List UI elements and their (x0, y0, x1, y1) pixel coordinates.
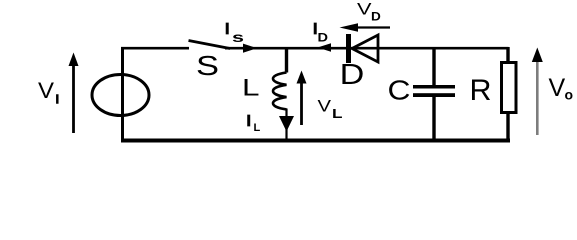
diode D triangle (352, 35, 378, 62)
wire: top right segment (225, 47, 509, 50)
svg-text:V: V (549, 74, 566, 102)
diode D cathode bar (346, 34, 351, 63)
arrow VL (300, 80, 303, 125)
arrow ID (318, 43, 332, 52)
svg-text:R: R (470, 74, 492, 107)
source VI (92, 75, 149, 116)
svg-text:D: D (318, 31, 329, 45)
arrow Vo (536, 60, 539, 135)
svg-text:L: L (242, 75, 260, 102)
svg-text:S: S (196, 50, 219, 81)
svg-text:L: L (254, 122, 261, 134)
svg-text:V: V (318, 97, 332, 116)
svg-text:o: o (565, 87, 574, 103)
inductor L (273, 73, 287, 110)
svg-text:D: D (371, 10, 381, 24)
wire: switch-node to inductor (junction) (285, 48, 288, 73)
arrow VD (352, 26, 390, 28)
capacitor C bottom plate (413, 93, 455, 97)
arrow VI (72, 63, 75, 133)
arrow IL (279, 116, 294, 132)
wire: right vertical upper (506, 47, 509, 63)
wire: inductor to arrow (285, 109, 287, 141)
resistor R (502, 63, 517, 113)
svg-text:I: I (56, 92, 60, 107)
svg-text:L: L (332, 106, 343, 121)
arrow IS (243, 44, 257, 53)
wire: bottom horizontal (121, 139, 510, 143)
svg-text:C: C (388, 75, 411, 106)
wire: capacitor bottom lead (432, 97, 435, 141)
wire: capacitor top lead (432, 48, 435, 85)
svg-text:V: V (38, 78, 54, 103)
svg-text:I: I (225, 21, 229, 38)
switch S (189, 41, 231, 49)
svg-text:D: D (340, 59, 365, 91)
wire: left vertical (121, 47, 124, 141)
wire: top left segment (121, 47, 189, 50)
svg-text:I: I (247, 113, 251, 130)
capacitor C top plate (413, 85, 455, 89)
wire: right vertical lower (506, 113, 509, 141)
svg-text:s: s (232, 29, 244, 45)
